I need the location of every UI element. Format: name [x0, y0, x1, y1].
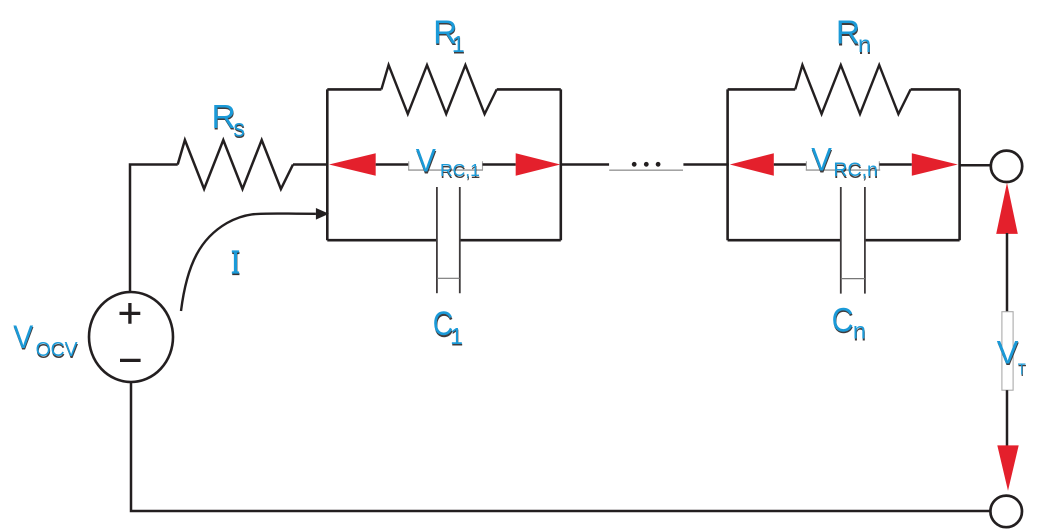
- label V_RC,n: [811, 141, 878, 183]
- ellipsis dots: [632, 162, 661, 167]
- label mask V_T: [1002, 312, 1013, 391]
- wire box2 to positive terminal: [960, 164, 991, 167]
- arrow left (V_RC,n polarity): [730, 153, 774, 175]
- dots mask: [609, 161, 683, 170]
- label I (current): [231, 244, 240, 282]
- RC box 1 outline wires: [327, 89, 561, 240]
- capacitor Cn plates: [841, 187, 865, 294]
- capacitor Cn connector line: [841, 278, 865, 280]
- wire from Rs to node A (RC box 1 left): [293, 163, 328, 166]
- voltage source V_OCV: [89, 292, 173, 382]
- wire mid box1 left: [376, 163, 409, 166]
- label Rs: [212, 99, 246, 144]
- wire mid box2 right: [879, 163, 912, 166]
- current arrow I curve: [181, 213, 316, 311]
- svg-text:s: s: [233, 114, 245, 142]
- resistor R1: [381, 65, 496, 114]
- arrow down (V_T polarity): [997, 445, 1018, 490]
- arrow left (V_RC,1 polarity): [329, 153, 376, 175]
- label mask V_RC,1: [408, 161, 483, 170]
- wire from V_OCV bottom along bottom rail to negative terminal: [131, 382, 990, 511]
- label Rn: [836, 15, 872, 59]
- svg-text:n: n: [853, 318, 866, 344]
- current arrow I head: [316, 208, 329, 220]
- svg-text:OCV: OCV: [36, 339, 79, 361]
- svg-text:V: V: [811, 141, 832, 178]
- arrow up (V_T polarity): [996, 183, 1018, 234]
- resistor Rs: [178, 140, 293, 189]
- wire terminal branch lower: [1006, 390, 1009, 446]
- arrow right (V_RC,1 polarity): [516, 153, 561, 175]
- arrow right (V_RC,n polarity): [912, 153, 958, 175]
- svg-text:I: I: [231, 244, 239, 281]
- wire mid box2 left: [774, 163, 807, 166]
- label R1: [433, 14, 465, 58]
- svg-text:RC,1: RC,1: [440, 160, 480, 180]
- svg-text:RC,n: RC,n: [833, 159, 877, 181]
- svg-text:V: V: [997, 334, 1019, 370]
- label V_RC,1: [416, 143, 480, 182]
- terminal node + (top right circle): [991, 151, 1022, 182]
- wire mid box1 right: [483, 163, 516, 166]
- label V_T: [997, 334, 1026, 380]
- svg-text:R: R: [836, 15, 860, 52]
- svg-text:R: R: [212, 99, 236, 136]
- svg-text:V: V: [416, 143, 436, 179]
- wire from V_OCV top to resistor Rs: [130, 165, 178, 294]
- wire terminal branch upper: [1006, 233, 1009, 312]
- capacitor C1 plates: [437, 187, 460, 293]
- wire between dots and box2: [683, 163, 728, 166]
- terminal node - (bottom right circle): [990, 496, 1022, 528]
- label C1: [433, 303, 463, 350]
- resistor Rn: [795, 65, 910, 114]
- RC box 2 outline wires: [728, 89, 960, 240]
- capacitor C1 connector line: [437, 277, 460, 279]
- svg-text:1: 1: [450, 323, 463, 349]
- svg-text:C: C: [832, 301, 854, 339]
- label mask V_RC,n: [806, 161, 880, 170]
- svg-text:V: V: [13, 319, 33, 355]
- svg-text:n: n: [858, 31, 871, 57]
- svg-text:T: T: [1018, 361, 1026, 378]
- svg-text:1: 1: [452, 31, 465, 57]
- label Cn: [832, 301, 867, 346]
- label V_OCV: [13, 319, 79, 363]
- wire between box1 and dots: [561, 163, 609, 166]
